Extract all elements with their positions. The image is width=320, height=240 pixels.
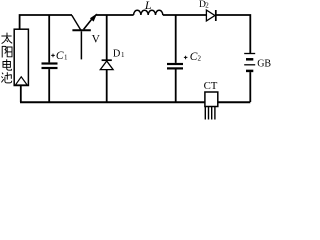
wire top-left riser and top rail to transistor emitter bbox=[20, 15, 72, 30]
svg-text:V: V bbox=[92, 33, 101, 45]
wire inductor to D2 bbox=[163, 14, 207, 16]
battery GB plate short thick bbox=[246, 70, 253, 73]
label 阳 bbox=[2, 46, 12, 58]
diode D1 top lead bbox=[106, 15, 108, 60]
capacitor C1 bottom plate bbox=[42, 67, 58, 69]
label 电 bbox=[3, 59, 11, 70]
battery GB plate long bbox=[244, 64, 255, 66]
capacitor C2 top plate bbox=[167, 63, 183, 65]
CT box bbox=[205, 92, 218, 107]
svg-text:L: L bbox=[144, 0, 152, 12]
solar cell box bbox=[14, 29, 28, 85]
svg-text:GB: GB bbox=[257, 58, 271, 69]
diode D2 cathode bar bbox=[215, 10, 217, 21]
wire collector to inductor bbox=[95, 14, 133, 16]
capacitor C1 top plate bbox=[42, 62, 58, 64]
solar cell triangle bbox=[15, 77, 27, 85]
svg-text:2: 2 bbox=[198, 55, 202, 63]
label 太 bbox=[1, 33, 12, 44]
label 池 bbox=[1, 72, 11, 83]
svg-text:1: 1 bbox=[64, 53, 68, 61]
svg-text:CT: CT bbox=[204, 80, 218, 92]
wire bottom rail left bbox=[20, 101, 205, 103]
capacitor C2 top lead bbox=[175, 15, 177, 63]
svg-text:1: 1 bbox=[121, 51, 125, 59]
transistor V collector arrowhead bbox=[90, 13, 97, 21]
transistor V emitter diagonal bbox=[72, 15, 81, 30]
label + of C2 bbox=[184, 56, 188, 60]
wire bottom rail right bbox=[218, 101, 251, 103]
transistor V collector diagonal bbox=[84, 18, 93, 30]
battery GB plate short thick bbox=[246, 58, 253, 61]
wire battery bottom lead bbox=[249, 72, 251, 102]
battery GB plate long bbox=[244, 53, 255, 55]
capacitor C1 top lead bbox=[48, 15, 50, 62]
capacitor C2 bottom lead bbox=[175, 70, 177, 103]
capacitor C2 bottom plate bbox=[167, 67, 183, 69]
capacitor C1 bottom lead bbox=[48, 69, 50, 102]
svg-text:2: 2 bbox=[205, 2, 209, 10]
inductor L humps bbox=[134, 10, 163, 15]
svg-text:D: D bbox=[113, 48, 121, 59]
diode D1 triangle bbox=[100, 61, 113, 70]
svg-text:C: C bbox=[56, 50, 64, 62]
transistor V base lead bbox=[80, 31, 82, 59]
transistor V base bar bbox=[72, 29, 90, 31]
diode D1 bottom lead bbox=[106, 70, 108, 102]
wire D2 to top-right corner and down bbox=[216, 15, 251, 54]
label + of C1 bbox=[51, 54, 55, 58]
diode D1 cathode bar bbox=[102, 59, 112, 61]
diode D2 triangle bbox=[206, 10, 215, 21]
wire solar cell bottom lead bbox=[20, 86, 22, 102]
CT prongs bbox=[205, 107, 215, 120]
